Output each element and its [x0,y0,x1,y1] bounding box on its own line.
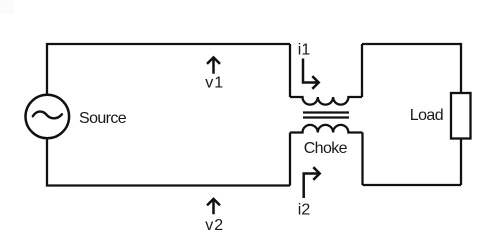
choke bottom winding L2 [290,125,363,133]
choke core line lower [303,116,349,118]
sine symbol inside source [33,112,62,119]
svg-text:v1: v1 [205,75,224,92]
faint corner artifact [0,0,14,14]
choke top winding L1 [290,97,362,105]
wire: left vertical lower [46,139,48,185]
svg-text:Choke: Choke [304,140,348,157]
wire: left vertical upper [46,43,48,94]
wire: right vertical below load [460,139,462,186]
svg-text:v2: v2 [205,217,224,234]
wire: bottom left horizontal [46,184,290,186]
wire: top left horizontal [47,43,290,45]
wire: down from choke bottom winding to bottom wire [289,133,291,186]
wire: up from choke top winding to top right wire [361,44,363,97]
source U1 (AC source circle) [26,95,70,139]
arrow v1 [207,57,220,73]
svg-text:Source: Source [79,110,127,127]
svg-text:i2: i2 [298,202,311,219]
arrow i1 [303,59,319,89]
svg-text:Load: Load [410,107,443,124]
choke core line upper [303,111,349,113]
svg-text:i1: i1 [298,42,311,59]
wire: down from top wire to choke top winding [289,44,291,97]
arrow v2 [207,199,220,214]
arrow i2 [304,167,320,198]
wire: bottom right horizontal [363,184,462,186]
wire: top right horizontal [362,43,461,45]
wire: right vertical into load [460,43,462,93]
wire: up from bottom right wire to choke bottom winding [361,133,363,186]
resistor Load [451,93,471,139]
